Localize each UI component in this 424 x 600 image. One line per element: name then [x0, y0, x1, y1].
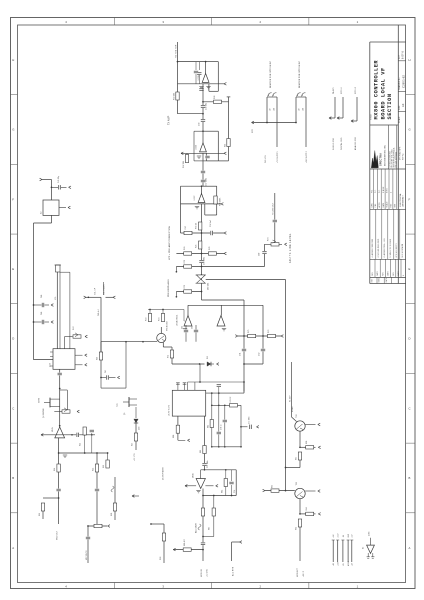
svg-text:ELECTRICAL: ELECTRICAL	[399, 192, 402, 206]
svg-text:ADJ GAIN: ADJ GAIN	[195, 523, 198, 533]
svg-text:C62: C62	[259, 353, 261, 356]
svg-text:C70 1n: C70 1n	[221, 424, 223, 430]
svg-text:TR1 BC858: TR1 BC858	[167, 321, 169, 331]
svg-text:R82: R82	[207, 425, 209, 428]
svg-text:C47: C47	[105, 370, 107, 373]
svg-text:R68 180K: R68 180K	[220, 197, 222, 206]
svg-text:6 OF 6: 6 OF 6	[402, 51, 405, 59]
svg-text:R88 4K7: R88 4K7	[184, 539, 186, 546]
svg-text:R90: R90	[306, 441, 308, 444]
svg-text:R60: R60	[214, 96, 216, 99]
svg-text:R94: R94	[306, 507, 308, 510]
svg-text:D10 D11: D10 D11	[208, 283, 210, 290]
svg-text:F: F	[12, 197, 14, 201]
svg-text:U18B: U18B	[368, 532, 370, 536]
svg-text:R91: R91	[296, 457, 298, 460]
svg-text:ANALOG GND: ANALOG GND	[354, 136, 357, 150]
svg-text:+12V: +12V	[338, 534, 340, 538]
svg-text:R92: R92	[272, 485, 274, 488]
svg-text:VOL UP: VOL UP	[95, 287, 97, 295]
svg-text:C45 18p: C45 18p	[58, 176, 60, 183]
svg-text:D: D	[12, 337, 14, 341]
svg-text:B: B	[409, 476, 411, 480]
svg-text:C74: C74	[234, 490, 236, 493]
svg-text:R49: R49	[97, 357, 99, 360]
svg-text:BC848: BC848	[292, 407, 294, 412]
svg-text:R58: R58	[111, 513, 113, 516]
svg-text:SHT: SHT	[395, 204, 397, 208]
svg-text:U15A: U15A	[197, 75, 200, 81]
svg-text:R70: R70	[209, 247, 211, 250]
svg-text:R57: R57	[132, 443, 134, 446]
svg-text:B: B	[12, 476, 14, 480]
svg-text:LK8: LK8	[274, 108, 276, 111]
svg-text:DE-EMPHASIS: DE-EMPHASIS	[162, 466, 165, 480]
svg-text:X2: X2	[41, 211, 43, 214]
svg-text:1.10.98: 1.10.98	[383, 187, 385, 193]
svg-text:DESC: DESC	[379, 277, 381, 283]
svg-text:A: A	[12, 546, 14, 550]
svg-text:VOL DOWN: VOL DOWN	[104, 284, 106, 295]
svg-text:PH 61 8 94772333: PH 61 8 94772333	[396, 152, 398, 168]
svg-text:C: C	[12, 406, 14, 410]
svg-text:A3: A3	[401, 103, 405, 107]
svg-text:MOD IN: MOD IN	[201, 569, 203, 577]
svg-text:R79 1K: R79 1K	[230, 396, 232, 403]
svg-text:H: H	[12, 58, 14, 62]
svg-text:SPK LO: SPK LO	[355, 86, 357, 94]
svg-text:R86: R86	[160, 557, 162, 560]
svg-text:C48 4u7: C48 4u7	[98, 309, 100, 316]
svg-text:TX AMP: TX AMP	[168, 115, 171, 125]
svg-text:MOD OUT: MOD OUT	[57, 530, 59, 540]
svg-text:REF No: REF No	[403, 153, 405, 160]
svg-text:C72 100n: C72 100n	[207, 460, 209, 468]
svg-text:C: C	[409, 406, 411, 410]
svg-text:E: E	[12, 267, 14, 271]
svg-text:RV2: RV2	[73, 326, 75, 330]
svg-text:R62 10K: R62 10K	[183, 160, 185, 168]
svg-text:C58 4u7: C58 4u7	[210, 220, 212, 227]
svg-text:PRE-EMPHASIS: PRE-EMPHASIS	[167, 279, 170, 297]
svg-text:C60: C60	[259, 253, 261, 256]
svg-text:R74: R74	[159, 318, 161, 321]
svg-text:F: F	[409, 197, 411, 201]
svg-text:4: 4	[391, 192, 393, 193]
svg-text:A: A	[409, 546, 411, 550]
svg-text:R59 10K: R59 10K	[174, 92, 176, 100]
svg-text:D12: D12	[207, 356, 209, 359]
svg-text:LK7: LK7	[299, 108, 301, 111]
svg-text:R52: R52	[80, 443, 82, 446]
svg-text:+8V: +8V	[333, 534, 335, 537]
svg-text:SHIELD GND: SHIELD GND	[333, 137, 335, 150]
svg-text:PA KEY: PA KEY	[332, 86, 335, 94]
svg-text:TO TX6 TXF: TO TX6 TXF	[175, 44, 177, 58]
svg-text:R25: R25	[196, 245, 198, 248]
svg-text:REMOVE FOR OPTION RC: REMOVE FOR OPTION RC	[270, 60, 272, 88]
svg-text:R72: R72	[184, 285, 186, 288]
svg-text:ADJ TX LINE LEVEL: ADJ TX LINE LEVEL	[289, 233, 292, 263]
svg-text:TX KEY: TX KEY	[289, 395, 291, 402]
svg-text:U17A: U17A	[51, 427, 54, 432]
svg-text:U15C: U15C	[194, 195, 196, 201]
svg-text:R80: R80	[173, 435, 175, 438]
svg-text:+12 LTD: +12 LTD	[206, 569, 208, 577]
svg-text:C49 10u: C49 10u	[206, 103, 208, 110]
svg-text:BOARD LOCAL VF: BOARD LOCAL VF	[380, 67, 386, 119]
svg-text:N.T.S.: N.T.S.	[387, 187, 389, 193]
svg-text:R73: R73	[146, 318, 148, 321]
svg-text:MT 7082/TIPS: MT 7082/TIPS	[400, 146, 402, 160]
svg-text:F.M.: F.M.	[371, 189, 373, 193]
svg-text:MOD ATT: MOD ATT	[296, 567, 299, 577]
svg-text:27.9.96 J.SEPPI: 27.9.96 J.SEPPI	[396, 243, 398, 257]
svg-text:APPD: APPD	[378, 202, 381, 208]
svg-text:U18A: U18A	[192, 473, 195, 478]
svg-text:TP2: TP2	[117, 403, 119, 407]
svg-text:R83: R83	[200, 450, 202, 453]
svg-text:R75: R75	[248, 330, 250, 333]
svg-text:P.C.: P.C.	[375, 189, 377, 193]
svg-text:R71: R71	[184, 260, 186, 263]
svg-text:R85: R85	[222, 490, 224, 493]
svg-text:SPK HI: SPK HI	[341, 87, 343, 94]
svg-text:+12 LT: +12 LT	[303, 571, 305, 577]
svg-text:Q4 2N7000: Q4 2N7000	[43, 408, 45, 418]
svg-text:R87: R87	[209, 527, 211, 530]
svg-text:TITLE: TITLE	[371, 113, 373, 120]
svg-text:P.C.: P.C.	[379, 189, 381, 193]
svg-text:+RX SUPPLY: +RX SUPPLY	[306, 150, 308, 163]
svg-text:C61: C61	[240, 353, 242, 356]
svg-text:+5V: +5V	[352, 534, 354, 537]
svg-text:MIC MUTE: MIC MUTE	[86, 550, 88, 560]
svg-text:1. WAS 2 OF 2 ISSUE: 1. WAS 2 OF 2 ISSUE	[389, 238, 392, 257]
svg-text:4. ADDED C183 R283: 4. ADDED C183 R283	[371, 239, 374, 258]
svg-text:C63: C63	[182, 326, 184, 329]
svg-text:U15B: U15B	[196, 144, 198, 150]
svg-text:R56: R56	[39, 513, 41, 516]
svg-text:2. ADDED R256 + LK9: 2. ADDED R256 + LK9	[383, 238, 386, 257]
svg-text:R69: R69	[184, 247, 186, 250]
svg-text:LPF + PRE-AMP CORRECTION: LPF + PRE-AMP CORRECTION	[168, 226, 171, 260]
svg-text:+12 LTD: +12 LTD	[134, 453, 136, 461]
svg-text:TR3: TR3	[296, 482, 298, 486]
svg-text:ASSEMBLY: ASSEMBLY	[402, 195, 405, 207]
svg-text:C50: C50	[199, 123, 201, 126]
svg-text:SECTION: SECTION	[387, 93, 393, 119]
svg-text:DATE: DATE	[382, 202, 385, 208]
svg-text:C59 100n: C59 100n	[204, 257, 206, 265]
svg-text:R53: R53	[103, 465, 105, 468]
svg-text:16.5.96 DRAWN: 16.5.96 DRAWN	[401, 243, 404, 257]
svg-text:RV4: RV4	[268, 237, 270, 241]
svg-text:VOL: VOL	[55, 296, 57, 300]
svg-text:C40: C40	[41, 312, 43, 315]
svg-text:+TX SUPPLY: +TX SUPPLY	[277, 150, 279, 163]
svg-text:U17B TL072: U17B TL072	[168, 405, 170, 416]
svg-text:REMOVE FOR OPTION RC: REMOVE FOR OPTION RC	[299, 60, 301, 88]
svg-text:DIGITAL GND: DIGITAL GND	[340, 137, 343, 150]
svg-text:C40: C40	[41, 295, 43, 298]
svg-text:DIG VOL: DIG VOL	[265, 155, 267, 163]
svg-text:R66 1K: R66 1K	[196, 222, 198, 229]
svg-text:ENGINEERING.INC: ENGINEERING.INC	[385, 144, 387, 166]
svg-text:G: G	[409, 128, 411, 132]
svg-text:3. MOVED R269 C171: 3. MOVED R269 C171	[378, 239, 380, 258]
svg-text:TR2: TR2	[296, 414, 298, 418]
svg-text:-8V: -8V	[343, 535, 345, 538]
svg-text:C64: C64	[192, 326, 194, 329]
svg-text:TX LINE OUT: TX LINE OUT	[273, 202, 275, 215]
svg-text:U16A LM324: U16A LM324	[176, 315, 179, 326]
svg-text:ZD3: ZD3	[139, 427, 141, 430]
svg-text:R55: R55	[93, 468, 95, 471]
svg-text:DRN: DRN	[371, 203, 373, 208]
svg-text:C2851-82: C2851-82	[401, 75, 405, 88]
svg-text:SCALE: SCALE	[386, 201, 389, 208]
svg-text:4: 4	[403, 275, 405, 276]
svg-text:R76: R76	[268, 330, 270, 333]
svg-text:LK8: LK8	[303, 108, 305, 111]
svg-text:R73: R73	[168, 355, 170, 358]
svg-text:R54: R54	[54, 468, 56, 471]
svg-text:R64: R64	[224, 144, 226, 147]
svg-text:ACC RTN: ACC RTN	[231, 566, 234, 576]
svg-text:E: E	[409, 267, 411, 271]
svg-text:R93: R93	[295, 527, 297, 530]
svg-text:MX800 CONTROLLER: MX800 CONTROLLER	[374, 60, 380, 120]
svg-text:C57 100n: C57 100n	[206, 178, 208, 186]
svg-text:H: H	[409, 58, 411, 62]
svg-text:Q5: Q5	[124, 413, 126, 415]
svg-text:C71 100n: C71 100n	[249, 416, 251, 424]
svg-text:G: G	[12, 128, 14, 132]
svg-text:D: D	[409, 337, 411, 341]
svg-text:LK7: LK7	[270, 108, 272, 111]
svg-text:R67: R67	[185, 226, 187, 229]
svg-text:MUTE: MUTE	[39, 397, 41, 403]
svg-text:SPECTRA: SPECTRA	[379, 153, 383, 166]
svg-text:SCALE: SCALE	[398, 116, 401, 123]
